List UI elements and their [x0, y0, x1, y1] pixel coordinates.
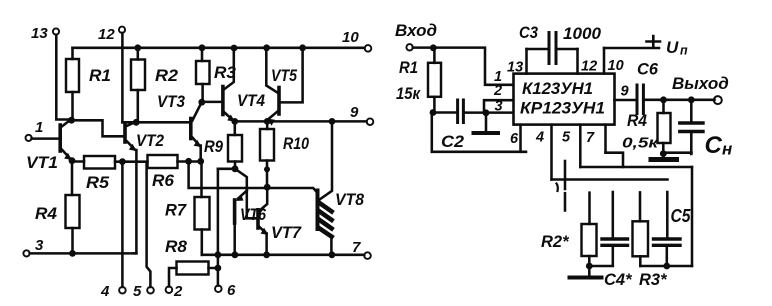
terminal pin 3	[23, 250, 29, 256]
ground (C2 node)	[485, 113, 488, 132]
bottom emitter wire to pin 7	[202, 254, 364, 257]
junction dot VT7 collector / R10 / VT8 base wire	[264, 184, 271, 191]
IC pin 7 lead	[604, 125, 607, 153]
svg-text:VT1: VT1	[26, 154, 58, 172]
svg-text:1000: 1000	[563, 25, 602, 43]
wire pin 5 long	[580, 166, 692, 169]
svg-text:VT5: VT5	[271, 67, 298, 85]
resistor R8	[177, 262, 209, 275]
wire pin 4	[121, 162, 124, 287]
wire C3 between pins 13,12	[527, 48, 578, 51]
junction dot VT4 emitter / R9 / pin9 wire	[231, 118, 238, 125]
capacitor C2	[456, 100, 459, 123]
svg-text:R1: R1	[399, 59, 418, 77]
junction dot R2/VT2 collector	[133, 119, 140, 126]
svg-text:3: 3	[495, 98, 503, 114]
resistor R2*	[582, 224, 597, 256]
svg-text:R2: R2	[155, 67, 178, 85]
terminal pin 6	[215, 286, 222, 293]
junction dot VT6 collector / bottom wire	[232, 251, 239, 258]
svg-text:5: 5	[133, 283, 142, 300]
svg-text:Вход: Вход	[395, 21, 437, 40]
capacitor C6	[636, 85, 639, 114]
junction dot VT5 emitter / R10 / pin9 wire	[264, 118, 271, 125]
junction dot VT8 emitter / bottom wire	[329, 251, 336, 258]
junction dot R2* bottom	[586, 263, 593, 270]
svg-text:15к: 15к	[396, 85, 421, 103]
IC pin 13 lead	[525, 49, 528, 74]
IC pin 12 lead	[576, 49, 579, 74]
IC pin 10 lead	[603, 48, 606, 74]
capacitor stub (pin4 decoupling, broken line)	[564, 161, 567, 189]
terminal pin 5	[147, 287, 154, 294]
resistor R3	[196, 61, 210, 84]
capacitor Cn	[690, 100, 693, 154]
terminal pin 2	[166, 286, 173, 293]
wire pin 5 from R6 left	[147, 162, 151, 287]
junction dot VT5 collector/bus	[263, 44, 270, 51]
resistor R1 (right)	[428, 63, 441, 97]
junction dot C5 bottom	[663, 263, 670, 270]
svg-text:С3: С3	[519, 24, 538, 42]
svg-text:13: 13	[507, 60, 523, 76]
junction dot pin6/R8	[215, 265, 222, 272]
capacitor C5	[666, 192, 669, 237]
svg-text:7: 7	[586, 130, 595, 146]
svg-text:н: н	[722, 140, 732, 159]
wire input to pin 1	[413, 48, 513, 85]
wire R2* to C4* bottom	[589, 265, 613, 268]
capacitor C3	[548, 33, 551, 64]
wire pin 7 to pin5 wire	[606, 153, 624, 167]
feedback wire R6 node to VT8 base	[189, 161, 316, 191]
junction dot pin6/bottom wire	[215, 251, 222, 258]
svg-text:R1: R1	[89, 67, 111, 85]
resistor R10	[260, 129, 274, 161]
resistor R1	[66, 59, 79, 92]
junction dot VT1 collector / R1 / pin13	[68, 117, 75, 124]
svg-text:VT2: VT2	[136, 132, 164, 150]
wire R1 bottom to common rail	[431, 113, 434, 152]
svg-text:4: 4	[535, 130, 544, 146]
terminal pin 12	[119, 27, 125, 33]
supply wire to +Un	[604, 47, 659, 50]
junction dot R1 bottom / C2 wire	[430, 109, 437, 116]
common rail (right segment)	[664, 151, 692, 154]
wire VT2 emitter down to pin3 wire	[134, 150, 136, 253]
junction dot R10 bottom	[264, 166, 270, 172]
svg-text:К123УН1: К123УН1	[522, 79, 593, 98]
svg-text:U: U	[666, 38, 679, 57]
svg-text:R7: R7	[165, 202, 187, 220]
junction dot VT7 emitter / bottom wire	[263, 251, 270, 258]
svg-text:R10: R10	[283, 135, 310, 153]
svg-text:R5: R5	[86, 174, 110, 192]
svg-text:R2*: R2*	[541, 233, 570, 251]
svg-text:6: 6	[227, 282, 236, 299]
wire VT1 collector to VT2 base (step)	[72, 120, 124, 136]
junction dot VT5 base/bus	[299, 44, 306, 51]
svg-text:4: 4	[100, 283, 110, 300]
svg-text:13: 13	[31, 25, 48, 42]
svg-text:10: 10	[342, 29, 359, 46]
IC pin 4 lead	[550, 125, 553, 180]
junction dot R4 bottom / rail	[660, 150, 667, 157]
junction dot VT3 emitter / R7	[197, 158, 204, 165]
junction dot pin4 / R5-R6 wire	[119, 158, 126, 165]
resistor R4 (right)	[658, 113, 671, 143]
terminal pin 7	[364, 252, 371, 259]
plus sign	[647, 36, 661, 47]
junction dot R3/bus	[199, 44, 206, 51]
pin 2 stub	[484, 100, 513, 112]
junction dot VT8 collector / pin9 wire	[329, 118, 336, 125]
junction dot R6 right / feedback wire	[185, 158, 192, 165]
junction dot Cn top	[688, 96, 695, 103]
resistor R2	[131, 60, 145, 91]
svg-text:R9: R9	[204, 138, 224, 156]
wire VT2 collector to VT3 base	[122, 121, 189, 124]
svg-text:5: 5	[562, 130, 571, 146]
junction dot R3 / VT3 collector / VT4 base	[198, 99, 205, 106]
junction dot C2/pin3 wire	[483, 109, 490, 116]
junction dot R9 bottom	[232, 165, 239, 172]
svg-text:12: 12	[98, 26, 115, 43]
junction dot input/R1	[430, 44, 437, 51]
svg-text:С4*: С4*	[604, 271, 633, 289]
svg-text:VT4: VT4	[237, 92, 265, 110]
output wire	[645, 99, 715, 102]
svg-text:2: 2	[493, 83, 502, 99]
terminal output	[714, 96, 722, 104]
svg-text:9: 9	[621, 84, 629, 100]
resistor R3*	[633, 221, 649, 256]
svg-text:С6: С6	[637, 61, 659, 79]
svg-text:VT3: VT3	[157, 93, 185, 111]
svg-text:9: 9	[350, 104, 359, 121]
svg-text:VT8: VT8	[335, 191, 365, 209]
svg-text:0,5к: 0,5к	[622, 135, 660, 152]
terminal pin 9	[367, 118, 374, 125]
svg-text:VT7: VT7	[271, 224, 302, 242]
svg-text:R4: R4	[627, 112, 647, 130]
IC box К123УН1	[514, 74, 615, 125]
svg-text:2: 2	[173, 283, 183, 300]
starred network top wire (pin 4)	[552, 178, 668, 181]
wire R1 to C2	[433, 111, 456, 114]
svg-text:R8: R8	[165, 238, 188, 256]
junction dot VT4 collector / bus	[231, 45, 238, 52]
junction dot R2/bus	[134, 44, 141, 51]
common rail (left segment)	[432, 151, 526, 154]
resistor R6	[148, 155, 178, 168]
resistor R4	[66, 195, 80, 228]
IC pin 9 lead	[615, 99, 636, 102]
svg-text:R6: R6	[152, 172, 175, 190]
svg-text:С5: С5	[671, 206, 692, 226]
wire pin12 down to VT2 collector wire	[121, 33, 124, 122]
junction dot R4 bottom / pin3 wire	[69, 250, 76, 257]
svg-text:С2: С2	[441, 133, 464, 151]
junction dot R4 top	[660, 96, 667, 103]
terminal pin 1	[26, 135, 32, 141]
resistor R5	[84, 156, 115, 169]
supply bus wire (top rail)	[73, 47, 365, 50]
resistor R7	[195, 197, 210, 230]
resistor R9	[228, 135, 242, 162]
wire pin 6 vertical	[217, 169, 220, 286]
ground under R2*	[588, 266, 591, 276]
svg-text:3: 3	[35, 237, 44, 254]
svg-text:6: 6	[510, 131, 519, 147]
ground under R4	[662, 153, 665, 157]
right vertical return wire	[691, 167, 694, 266]
IC pin 5 lead	[579, 125, 582, 167]
terminal pin 10	[365, 45, 372, 52]
terminal pin 13	[53, 28, 59, 34]
wire R9 bottom to pin6 vertical	[218, 168, 235, 171]
svg-text:R3*: R3*	[639, 271, 668, 289]
capacitor C4*	[612, 192, 615, 237]
IC pin 6 lead	[519, 125, 522, 152]
svg-text:п: п	[680, 44, 688, 58]
svg-text:R4: R4	[35, 205, 57, 223]
wire pin13 to VT1 collector node	[56, 35, 70, 120]
wire VT4 base	[202, 101, 222, 104]
terminal input	[406, 44, 412, 50]
svg-text:12: 12	[581, 59, 597, 75]
svg-text:КР123УН1: КР123УН1	[520, 99, 605, 118]
junction dot VT1 emitter / R4 / R5	[69, 157, 76, 164]
svg-text:Выход: Выход	[672, 74, 729, 93]
wire pin 3	[30, 252, 137, 255]
wire C2 to pin 3	[465, 111, 513, 114]
svg-text:7: 7	[352, 239, 361, 256]
wire pin 9	[235, 120, 367, 123]
svg-text:10: 10	[608, 58, 624, 74]
bottom wire R3*/C5 to right vertical	[640, 265, 692, 268]
svg-text:С: С	[705, 132, 723, 159]
svg-text:1: 1	[35, 119, 43, 136]
terminal pin 4	[119, 287, 126, 294]
